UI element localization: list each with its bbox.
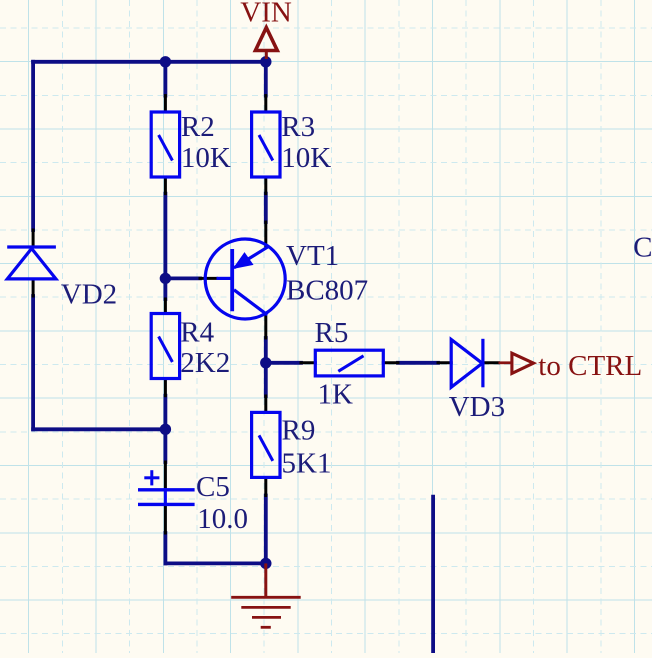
svg-text:VIN: VIN [240, 0, 292, 29]
pin R9.1 [264, 396, 267, 412]
wire left column lower [31, 296, 35, 429]
resistor R2 10K [151, 112, 179, 177]
svg-text:VT1: VT1 [286, 240, 339, 272]
wire base node [165, 276, 200, 280]
pin C5.1 [164, 462, 167, 488]
diode VD3 [451, 339, 483, 388]
junction R4/C5/VD2 [160, 424, 171, 435]
svg-text:C5: C5 [196, 471, 230, 503]
junction VIN rail / R2 [160, 56, 171, 67]
pin R3.2 [264, 177, 267, 194]
wire bottom to GND node [165, 562, 265, 566]
wire R2-R4 [163, 194, 167, 299]
wire R3 top [264, 62, 268, 96]
wire R3-VT1 [264, 194, 268, 222]
wire VT1 collector down [264, 338, 268, 363]
pin R9.2 [264, 480, 267, 496]
pin VT1 collector [264, 315, 267, 339]
wire node to C5 [163, 429, 167, 462]
svg-text:R4: R4 [180, 316, 214, 348]
diode VD2 [7, 247, 56, 279]
svg-text:BC807: BC807 [286, 275, 368, 307]
wire left column upper [31, 62, 35, 230]
junction VIN / R3 [260, 56, 271, 67]
svg-text:10K: 10K [281, 142, 331, 174]
svg-text:VD2: VD2 [61, 279, 117, 311]
pin VD2 anode [32, 281, 35, 297]
pin VT1 emitter [264, 222, 267, 246]
pin C5.2 [164, 506, 167, 533]
pin R4.1 [164, 299, 167, 314]
junction GND node [260, 558, 271, 569]
capacitor C5 (polarized) [138, 470, 195, 506]
wire R4 bottom [163, 396, 167, 430]
wire node to R5 [266, 361, 301, 365]
resistor R3 10K [252, 112, 280, 177]
pin R2.1 [164, 96, 167, 112]
wire R2 top [163, 62, 167, 96]
svg-text:C: C [633, 232, 652, 264]
junction VT1/R5/R9 [260, 357, 271, 368]
resistor R4 2K2 [151, 314, 179, 379]
svg-text:10K: 10K [181, 142, 231, 174]
pin R5.2 [383, 361, 398, 364]
pin R4.2 [164, 380, 167, 396]
ground [231, 563, 301, 627]
svg-text:R5: R5 [315, 317, 349, 349]
wire bottom right vertical [431, 497, 435, 653]
svg-text:R2: R2 [181, 111, 215, 143]
pin VD3 anode [438, 361, 451, 364]
svg-text:10.0: 10.0 [197, 503, 248, 535]
wire VIN rail top [33, 60, 266, 64]
transistor VT1 BC807 (PNP) [205, 239, 285, 319]
port to CTRL [499, 353, 534, 373]
svg-text:R9: R9 [282, 415, 316, 447]
wire R9 bottom [264, 496, 268, 564]
svg-text:5K1: 5K1 [282, 448, 332, 480]
svg-text:VD3: VD3 [449, 391, 505, 423]
svg-text:to CTRL: to CTRL [538, 350, 642, 382]
pin R5.1 [301, 361, 315, 364]
svg-text:1K: 1K [318, 379, 354, 411]
pin VT1 base [200, 277, 217, 280]
junction base node [160, 273, 171, 284]
wire node to R9 [264, 363, 268, 396]
pin VD2 cathode [32, 230, 35, 246]
svg-text:R3: R3 [281, 111, 315, 143]
wire C5 bottom [163, 533, 167, 563]
pin R3.1 [264, 96, 267, 112]
resistor R9 5K1 [252, 412, 280, 477]
wire left to node R4/C5 [33, 427, 165, 431]
wire R5 to VD3 [398, 361, 438, 365]
svg-text:2K2: 2K2 [180, 347, 230, 379]
pin R2.2 [164, 177, 167, 194]
power port VIN [255, 28, 277, 60]
resistor R5 1K [315, 350, 383, 376]
pin VD3 cathode [483, 361, 499, 364]
